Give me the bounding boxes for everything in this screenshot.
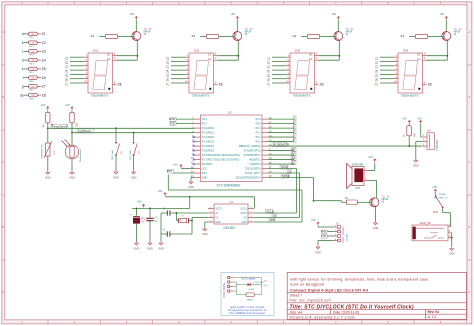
svg-text:P2.2: P2.2 (256, 136, 262, 139)
svg-text:D: D (469, 226, 471, 229)
svg-text:P2.5: P2.5 (256, 122, 262, 125)
svg-text:GND: GND (131, 175, 137, 179)
svg-text:Z4: Z4 (374, 69, 378, 73)
svg-text:THERMISTOR: THERMISTOR (41, 144, 43, 159)
svg-text:P1.6/ADC6/RxD3 SECLK0/G1/P5.4: P1.6/ADC6/RxD3 SECLK0/G1/P5.4 (202, 154, 241, 157)
svg-text:GND: GND (202, 176, 208, 179)
svg-text:T2/CLKO/P5.0: T2/CLKO/P5.0 (245, 167, 261, 170)
svg-text:+5V: +5V (368, 155, 373, 159)
svg-text:IR_REMOTE: IR_REMOTE (273, 142, 289, 146)
svg-text:Z3: Z3 (374, 65, 378, 69)
svg-text:Size: A4: Size: A4 (290, 311, 303, 315)
svg-text:+5V: +5V (41, 103, 46, 107)
svg-text:GND: GND (215, 221, 221, 224)
svg-text:SW_DPST_x2: SW_DPST_x2 (434, 197, 449, 199)
svg-text:GND: GND (134, 246, 140, 250)
svg-text:Z4: Z4 (64, 69, 68, 73)
svg-text:f: f (23, 76, 24, 80)
svg-text:Z5: Z5 (165, 74, 169, 78)
svg-text:Z6: Z6 (42, 76, 46, 80)
svg-text:GND: GND (202, 232, 208, 236)
svg-text:Z6: Z6 (266, 78, 270, 82)
svg-text:the USB/Serial converter: the USB/Serial converter (229, 311, 265, 315)
svg-text:15CLK0/SPC/RxD/P3.4: 15CLK0/SPC/RxD/P3.4 (235, 176, 261, 179)
svg-text:A2: A2 (292, 156, 296, 160)
svg-text:A2: A2 (191, 34, 195, 38)
svg-text:MyR: MyR (433, 212, 438, 214)
svg-text:115200: 115200 (346, 233, 348, 241)
svg-text:C: C (2, 161, 4, 164)
svg-text:+5V: +5V (439, 12, 444, 16)
svg-text:P5.4/RST: P5.4/RST (202, 163, 213, 166)
svg-text:P5.5: P5.5 (202, 172, 208, 175)
svg-text:TempSens.: TempSens. (52, 125, 67, 129)
svg-text:Sheet: /: Sheet: / (290, 294, 302, 298)
svg-text:A4: A4 (292, 147, 296, 151)
svg-text:File: stc_diyclock.sch: File: stc_diyclock.sch (290, 299, 331, 303)
svg-text:DS2: DS2 (194, 48, 200, 52)
svg-text:3: 3 (335, 234, 336, 236)
svg-text:Z3: Z3 (64, 65, 68, 69)
svg-text:RST: RST (167, 169, 173, 173)
svg-text:CA.: CA. (208, 54, 212, 57)
svg-text:Z1: Z1 (374, 56, 378, 60)
svg-text:Z2: Z2 (64, 61, 68, 65)
svg-text:+5V: +5V (173, 162, 178, 166)
svg-text:GND: GND (413, 164, 419, 168)
svg-text:TXD: TXD (169, 122, 175, 126)
svg-text:SW_Push: SW_Push (112, 149, 114, 160)
svg-text:Z1: Z1 (64, 56, 68, 60)
svg-text:P1.3/ADC3: P1.3/ADC3 (202, 140, 215, 143)
svg-text:Z3: Z3 (42, 50, 46, 54)
svg-text:+5V: +5V (402, 117, 407, 121)
svg-text:(+5V USB: (+5V USB (254, 282, 264, 284)
svg-text:GND: GND (449, 252, 455, 256)
svg-text:220: 220 (31, 78, 34, 80)
svg-text:Z4: Z4 (165, 69, 169, 73)
svg-text:+5V: +5V (137, 200, 142, 204)
svg-text:SW3B: SW3B (439, 194, 446, 196)
svg-text:Z5: Z5 (374, 74, 378, 78)
svg-text:VCC: VCC (202, 167, 207, 170)
svg-text:10K: 10K (76, 123, 78, 128)
svg-text:Z2: Z2 (42, 41, 46, 45)
svg-text:10K: 10K (414, 133, 416, 137)
svg-text:DS3: DS3 (295, 48, 301, 52)
svg-text:+5V: +5V (65, 103, 70, 107)
svg-text:CA.: CA. (417, 54, 421, 57)
svg-text:Z5: Z5 (266, 74, 270, 78)
svg-text:e: e (22, 67, 24, 71)
svg-text:with light sensor for dimming,: with light sensor for dimming, temperatu… (290, 277, 428, 281)
svg-text:SPKR: SPKR (282, 174, 290, 178)
svg-text:RST: RST (270, 218, 276, 222)
svg-text:GND: GND (45, 176, 51, 180)
svg-text:RxD2/P3.1: RxD2/P3.1 (249, 158, 261, 161)
svg-text:Z5: Z5 (42, 67, 46, 71)
svg-text:SPEAKER: SPEAKER (352, 163, 364, 166)
svg-text:Sold on Banggood: Sold on Banggood (290, 282, 324, 286)
svg-text:Z6: Z6 (374, 78, 378, 82)
svg-text:Z8: Z8 (42, 93, 46, 97)
svg-text:Z7: Z7 (42, 85, 46, 89)
svg-text:220: 220 (31, 86, 34, 88)
svg-text:STC15W408AS: STC15W408AS (217, 183, 242, 187)
svg-text:INT0/WT0/P3.2: INT0/WT0/P3.2 (244, 154, 261, 157)
svg-text:P2.6: P2.6 (256, 118, 262, 121)
svg-text:P3.7: P3.7 (202, 122, 208, 125)
svg-text:Z3: Z3 (266, 65, 270, 69)
svg-text:Z3: Z3 (165, 65, 169, 69)
svg-text:CON4_SERIAL: CON4_SERIAL (223, 281, 226, 298)
svg-text:VCC1: VCC1 (240, 207, 247, 210)
svg-text:+5V: +5V (230, 12, 235, 16)
svg-text:SCLK: SCLK (267, 209, 274, 213)
svg-text:P1.1/ADC1: P1.1/ADC1 (202, 131, 215, 134)
svg-text:Z2: Z2 (266, 61, 270, 65)
svg-text:CA.: CA. (107, 54, 111, 57)
svg-text:+5V: +5V (331, 12, 336, 16)
svg-text:A3: A3 (292, 152, 296, 156)
svg-text:Z8: Z8 (428, 83, 432, 87)
svg-text:P2.1: P2.1 (256, 140, 262, 143)
svg-text:CA.: CA. (309, 54, 313, 57)
svg-text:CA.: CA. (107, 58, 111, 61)
svg-text:BT1: BT1 (141, 218, 146, 220)
svg-text:P1.7/ADC7/TxD3 SECLK1/T0/P5.5: P1.7/ADC7/TxD3 SECLK1/T0/P5.5 (202, 158, 240, 161)
svg-text:RXD: RXD (321, 231, 326, 234)
svg-text:d: d (22, 58, 24, 62)
svg-text:SP1: SP1 (356, 187, 361, 190)
svg-text:P2.3: P2.3 (256, 131, 262, 134)
svg-text:Z4: Z4 (42, 58, 46, 62)
svg-text:Z7: Z7 (374, 82, 378, 86)
svg-text:LightSens.: LightSens. (78, 129, 92, 133)
svg-text:JACK_2P: JACK_2P (420, 221, 432, 225)
svg-text:Rev: 04: Rev: 04 (428, 310, 440, 314)
svg-text:A4: A4 (400, 34, 404, 38)
svg-text:+5V: +5V (311, 218, 316, 222)
svg-text:2: 2 (335, 230, 336, 232)
svg-text:SCLK: SCLK (241, 212, 248, 215)
svg-text:MRDOUT_L0A/P3.6: MRDOUT_L0A/P3.6 (239, 145, 261, 148)
svg-text:1: 1 (335, 225, 336, 227)
svg-text:GND: GND (113, 175, 119, 179)
svg-text:Z6: Z6 (165, 78, 169, 82)
svg-text:Z4: Z4 (266, 69, 270, 73)
svg-text:220: 220 (31, 43, 34, 45)
svg-text:220: 220 (31, 51, 34, 53)
svg-text:(LED): (LED) (249, 289, 255, 291)
svg-text:KiCad E.D.A. eeschema 5.1.7-1: KiCad E.D.A. eeschema 5.1.7-1.fc31 (290, 315, 356, 319)
svg-text:RXD: RXD (169, 117, 175, 121)
svg-text:P3.0: P3.0 (202, 118, 208, 121)
svg-text:GND: GND (147, 246, 153, 250)
svg-text:7SEGMENTS: 7SEGMENTS (91, 94, 109, 98)
svg-text:I/O: I/O (244, 216, 247, 219)
svg-text:GND: GND (158, 246, 164, 250)
svg-text:g: g (22, 85, 24, 89)
svg-text:+5V: +5V (158, 189, 163, 193)
svg-text:7SEGMENTS: 7SEGMENTS (192, 94, 210, 98)
svg-text:D: D (2, 226, 4, 229)
svg-text:+5V: +5V (417, 117, 422, 121)
svg-text:Date: 2020-11-09: Date: 2020-11-09 (333, 311, 359, 315)
svg-text:CHQ1838: CHQ1838 (436, 140, 439, 151)
svg-text:220: 220 (31, 34, 34, 36)
svg-text:GND: GND (188, 185, 194, 189)
svg-text:Compact Digital 4-digit LED Cl: Compact Digital 4-digit LED Clock DIY Ki… (290, 288, 369, 292)
svg-text:Z7: Z7 (266, 82, 270, 86)
svg-text:A1: A1 (90, 34, 94, 38)
svg-text:P1.0/ADC0: P1.0/ADC0 (202, 127, 215, 130)
svg-text:Title: STC DIYCLOCK (STC Do It: Title: STC DIYCLOCK (STC Do It Yourself … (290, 304, 414, 310)
svg-text:Z1: Z1 (42, 32, 46, 36)
svg-text:DS1302: DS1302 (224, 226, 236, 230)
svg-text:a: a (22, 32, 24, 36)
svg-text:Z1: Z1 (266, 56, 270, 60)
svg-text:A1: A1 (292, 161, 296, 165)
svg-text:CA.: CA. (208, 58, 212, 61)
svg-text:P1.5/ADC5: P1.5/ADC5 (202, 149, 215, 152)
svg-text:TxD2/P3.0: TxD2/P3.0 (249, 163, 261, 166)
svg-text:GND: GND (373, 226, 379, 230)
svg-text:Z5: Z5 (64, 74, 68, 78)
svg-text:VCC open: VCC open (242, 277, 256, 281)
svg-text:(R80): (R80) (247, 299, 253, 301)
svg-text:Z7: Z7 (165, 82, 169, 86)
svg-text:SCLK: SCLK (281, 165, 288, 169)
svg-text:DS1: DS1 (93, 48, 99, 52)
svg-text:Z8: Z8 (320, 83, 324, 87)
svg-text:C: C (469, 161, 471, 164)
svg-text:Z2: Z2 (165, 61, 169, 65)
svg-text:RST: RST (242, 221, 247, 224)
svg-text:INT1/WT1/P3.3: INT1/WT1/P3.3 (244, 149, 261, 152)
svg-text:SW_Push: SW_Push (130, 149, 132, 160)
svg-text:Z7: Z7 (64, 82, 68, 86)
svg-text:220: 220 (31, 60, 34, 62)
svg-text:P2.4: P2.4 (256, 127, 262, 130)
svg-text:b: b (22, 41, 24, 45)
svg-text:7SEGMENTS: 7SEGMENTS (293, 94, 311, 98)
svg-text:TXD: TXD (321, 235, 326, 238)
svg-text:CA.: CA. (309, 58, 313, 61)
svg-text:P1.2/ADC2: P1.2/ADC2 (202, 136, 215, 139)
svg-text:U1: U1 (230, 200, 234, 204)
svg-text:CA.: CA. (417, 58, 421, 61)
svg-text:P1.4/ADC4: P1.4/ADC4 (202, 145, 215, 148)
svg-text:Z8: Z8 (219, 83, 223, 87)
svg-text:DS4: DS4 (403, 48, 409, 52)
svg-text:Photoresistor: Photoresistor (79, 149, 82, 162)
svg-text:+5V: +5V (432, 185, 437, 189)
svg-text:U2: U2 (228, 110, 232, 114)
svg-text:dp: dp (20, 93, 24, 97)
svg-text:Z2: Z2 (374, 61, 378, 65)
svg-text:220: 220 (31, 95, 34, 97)
svg-text:GND: GND (315, 250, 321, 254)
svg-text:A3: A3 (292, 34, 296, 38)
svg-text:GND: GND (69, 176, 75, 180)
svg-text:Id: 1/1: Id: 1/1 (428, 315, 437, 319)
svg-text:Z1: Z1 (165, 56, 169, 60)
svg-text:7SEGMENTS: 7SEGMENTS (401, 94, 419, 98)
svg-text:Z8: Z8 (118, 83, 122, 87)
svg-text:T1/TxD_2/P3.7: T1/TxD_2/P3.7 (244, 172, 261, 175)
svg-text:+5V: +5V (129, 12, 134, 16)
svg-text:Z6: Z6 (64, 78, 68, 82)
svg-text:CON4_SERIAL: CON4_SERIAL (342, 226, 345, 243)
svg-text:4: 4 (335, 239, 336, 241)
svg-text:VCC2: VCC2 (215, 207, 222, 210)
svg-text:220: 220 (31, 69, 34, 71)
